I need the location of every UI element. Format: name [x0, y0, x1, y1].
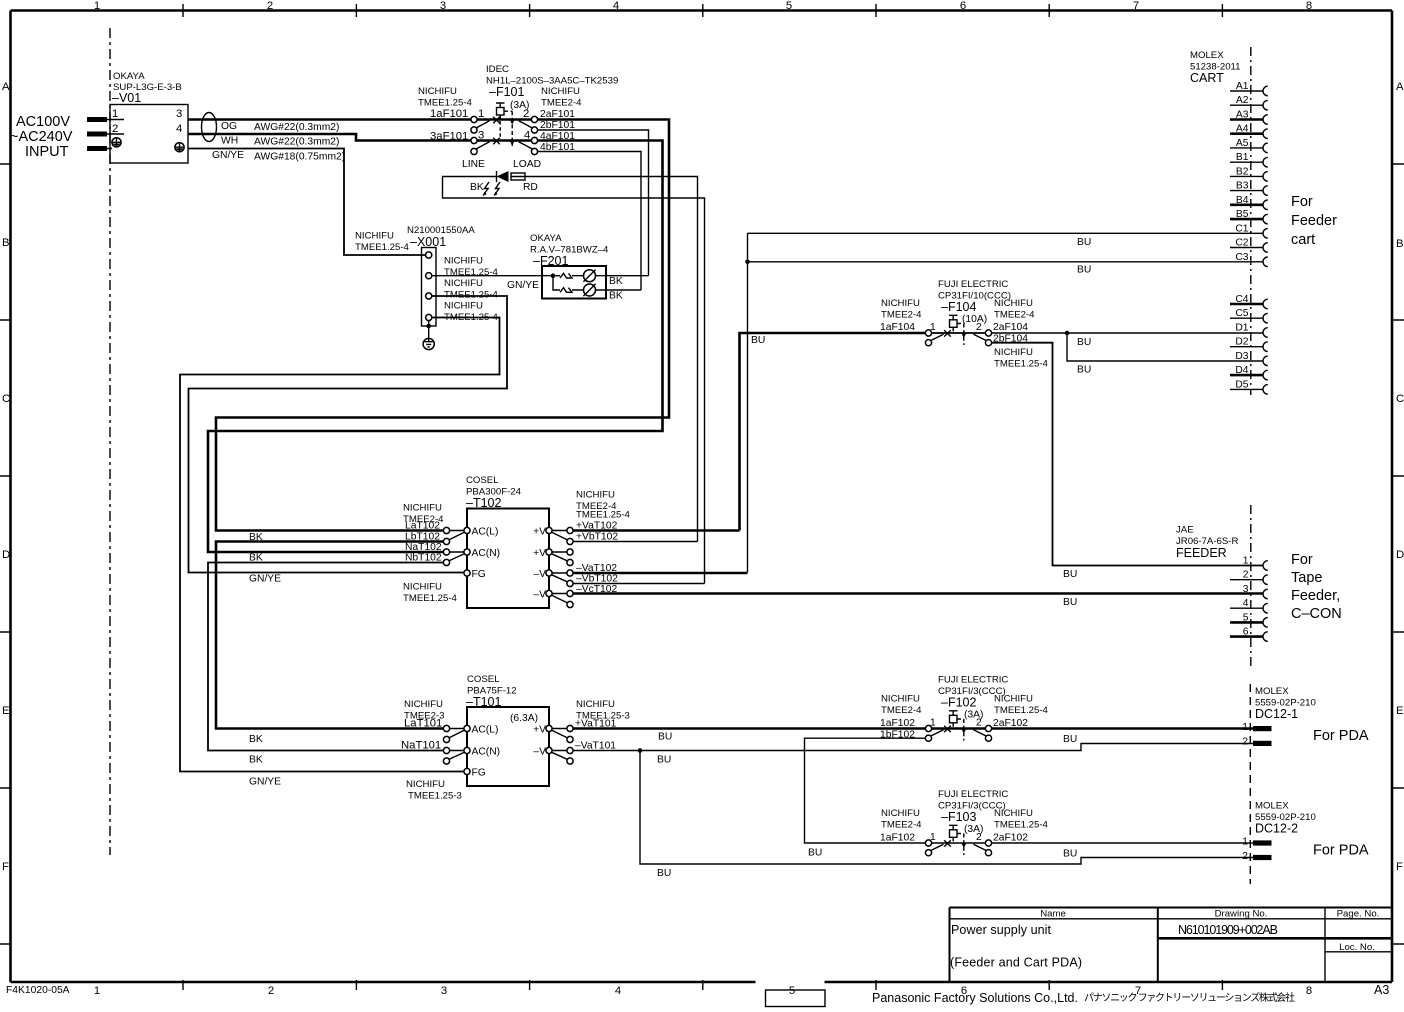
- svg-text:F4K1020-05A: F4K1020-05A: [6, 985, 70, 996]
- svg-text:GN/YE: GN/YE: [249, 574, 281, 585]
- svg-text:4: 4: [615, 985, 621, 997]
- svg-text:6: 6: [960, 0, 966, 12]
- AC input label: [10, 114, 73, 160]
- CART pin A3: [1230, 110, 1268, 125]
- svg-text:1: 1: [112, 108, 118, 120]
- DC12-2 pin 1: [1242, 837, 1271, 848]
- wire 24V: +VaT102 up to F104 line: [740, 333, 926, 531]
- svg-text:RD: RD: [523, 182, 538, 193]
- svg-text:C: C: [2, 393, 10, 405]
- svg-text:1: 1: [94, 985, 100, 997]
- svg-text:TMEE1.25-4: TMEE1.25-4: [403, 593, 458, 604]
- svg-text:Tape: Tape: [1291, 570, 1322, 586]
- CART pin B3: [1230, 181, 1268, 196]
- svg-text:MOLEX: MOLEX: [1190, 50, 1224, 61]
- F101 pole 2 contact: [476, 138, 532, 149]
- T102 pin +V1: [533, 527, 552, 538]
- CART pin D4: [1230, 365, 1268, 380]
- V01 ground terminal right: [175, 143, 184, 152]
- circuit breaker F104 FUJI ELECTRIC labels: [881, 279, 1049, 370]
- svg-text:BU: BU: [1063, 734, 1077, 745]
- svg-text:LaT102: LaT102: [405, 521, 440, 532]
- svg-text:TMEE1.25-4: TMEE1.25-4: [994, 359, 1049, 370]
- noise filter V01 OKAYA SUP-L3G-E-3-B: [110, 71, 188, 163]
- svg-text:8: 8: [1306, 0, 1312, 12]
- svg-text:5: 5: [786, 0, 792, 12]
- wire 2aF101: F101 to LaT102: [216, 120, 669, 531]
- svg-text:NaT101: NaT101: [401, 740, 441, 752]
- wire WH: V01 pin4 to F101 pin3: [188, 134, 471, 141]
- svg-text:7: 7: [1133, 0, 1139, 12]
- svg-text:BU: BU: [1063, 597, 1077, 608]
- svg-text:NICHIFU: NICHIFU: [403, 503, 442, 514]
- pilot LED: [497, 171, 509, 182]
- svg-text:NICHIFU: NICHIFU: [881, 298, 920, 309]
- T102 pin FG: [464, 569, 486, 580]
- circuit breaker F103 FUJI ELECTRIC labels: [881, 789, 1049, 835]
- CART pin D5: [1230, 379, 1268, 394]
- X001 crimp labels right: [444, 256, 499, 324]
- svg-text:F: F: [2, 861, 9, 873]
- svg-text:NICHIFU: NICHIFU: [418, 86, 457, 97]
- wire 0V: C1/C3 bus down to -VaT102: [748, 233, 1264, 572]
- FEEDER pin 2: [1230, 570, 1268, 585]
- T101 pin AC(L): [464, 725, 498, 736]
- svg-text:2aF104: 2aF104: [993, 322, 1028, 333]
- connector DC12-1 MOLEX 5559-02P-210: [1255, 686, 1316, 721]
- dash-dot boundary line left: [109, 28, 111, 855]
- X001 protective earth symbol: [423, 321, 434, 350]
- junction node C3 branch: [745, 260, 750, 265]
- CART pin C2: [1230, 238, 1268, 253]
- svg-text:2aF102: 2aF102: [993, 833, 1028, 844]
- column numbers bottom: [94, 985, 1312, 997]
- wire 1bF102 to F103: [805, 738, 926, 843]
- svg-text:(Feeder and Cart PDA): (Feeder and Cart PDA): [950, 956, 1082, 970]
- F102 contact: [931, 726, 987, 736]
- svg-text:NICHIFU: NICHIFU: [576, 490, 615, 501]
- wire X001-2 to F201 GN/YE: [432, 275, 542, 277]
- CART pin D1: [1235, 323, 1267, 338]
- svg-text:2: 2: [1242, 851, 1248, 862]
- svg-text:NICHIFU: NICHIFU: [403, 582, 442, 593]
- V01 ground terminal left: [112, 138, 121, 147]
- wire gauge labels: [254, 122, 345, 163]
- svg-text:FUJI ELECTRIC: FUJI ELECTRIC: [938, 789, 1008, 800]
- CART pin A2: [1230, 95, 1268, 110]
- svg-text:OKAYA: OKAYA: [113, 71, 145, 82]
- svg-text:A: A: [2, 81, 10, 93]
- svg-text:F: F: [1396, 861, 1403, 873]
- svg-text:DC12-1: DC12-1: [1255, 707, 1298, 721]
- svg-text:+V: +V: [533, 725, 546, 736]
- T102 input terminals: [443, 527, 464, 565]
- svg-text:Page. No.: Page. No.: [1337, 909, 1380, 920]
- svg-text:TMEE2-4: TMEE2-4: [994, 310, 1035, 321]
- wire GN/YE: V01 earth to X001: [188, 149, 426, 256]
- svg-text:(10A): (10A): [962, 314, 987, 325]
- svg-text:TMEE2-4: TMEE2-4: [541, 98, 582, 109]
- F101 LINE terminals: [471, 116, 477, 154]
- svg-text:BK: BK: [470, 182, 484, 193]
- svg-text:–V: –V: [533, 747, 546, 758]
- svg-text:AWG#22(0.3mm2): AWG#22(0.3mm2): [254, 122, 339, 133]
- T102 pin AC(N): [464, 548, 500, 559]
- svg-text:BU: BU: [657, 868, 671, 879]
- svg-text:BK: BK: [249, 755, 263, 766]
- svg-text:(6.3A): (6.3A): [510, 713, 538, 724]
- CART pin D3: [1235, 351, 1267, 366]
- svg-text:GN/YE: GN/YE: [212, 150, 244, 161]
- F201 junction node: [551, 273, 556, 278]
- DC12-1 pin 2: [1242, 737, 1271, 748]
- FEEDER pin 4: [1230, 598, 1268, 613]
- svg-text:1aF102: 1aF102: [880, 833, 915, 844]
- svg-text:BU: BU: [657, 755, 671, 766]
- F104 LINE terminals: [925, 330, 931, 346]
- svg-text:NICHIFU: NICHIFU: [355, 231, 394, 242]
- svg-text:1aF102: 1aF102: [880, 718, 915, 729]
- svg-text:B: B: [1396, 238, 1404, 250]
- svg-text:BU: BU: [1063, 569, 1077, 580]
- CART pin A5: [1230, 138, 1268, 153]
- svg-text:WH: WH: [221, 136, 238, 147]
- svg-text:CART: CART: [1190, 71, 1224, 85]
- CART pin A4: [1230, 124, 1268, 139]
- T102 pin -V2: [533, 590, 552, 601]
- svg-text:1aF104: 1aF104: [880, 322, 915, 333]
- svg-text:3: 3: [176, 108, 182, 120]
- svg-text:1: 1: [1243, 556, 1249, 567]
- svg-text:2: 2: [112, 123, 118, 135]
- svg-text:Name: Name: [1040, 909, 1066, 920]
- svg-text:GN/YE: GN/YE: [507, 280, 539, 291]
- svg-text:NICHIFU: NICHIFU: [881, 694, 920, 705]
- svg-text:TMEE1.25-4: TMEE1.25-4: [994, 705, 1049, 716]
- F201 lamp row 2: [583, 284, 595, 296]
- wire -VbT102 to pilot light: [573, 583, 704, 585]
- svg-text:C: C: [1396, 393, 1404, 405]
- DC12-2 pin 2: [1242, 851, 1271, 862]
- svg-text:1: 1: [1242, 837, 1248, 848]
- F103 trip linkage dashed: [957, 834, 966, 856]
- F104 trip linkage dashed: [957, 324, 966, 346]
- wire 2aF103 to DC12-2 pin1: [992, 842, 1253, 844]
- svg-text:BU: BU: [1077, 365, 1091, 376]
- svg-text:INPUT: INPUT: [25, 144, 69, 160]
- AC input terminal bars: [87, 117, 124, 151]
- F201 varistor row 1: [560, 273, 572, 278]
- FEEDER pin 6: [1230, 627, 1268, 642]
- note For Tape Feeder C-CON: [1291, 552, 1342, 622]
- svg-text:FG: FG: [472, 768, 486, 779]
- svg-text:AWG#22(0.3mm2): AWG#22(0.3mm2): [254, 137, 339, 148]
- svg-text:C–CON: C–CON: [1291, 606, 1342, 622]
- svg-text:NICHIFU: NICHIFU: [406, 779, 445, 790]
- svg-text:~AC240V: ~AC240V: [10, 129, 73, 145]
- cable grommet ellipse: [202, 113, 217, 142]
- F102 thermal element: [949, 711, 958, 727]
- svg-text:NICHIFU: NICHIFU: [404, 699, 443, 710]
- svg-text:–F201: –F201: [533, 254, 568, 268]
- svg-text:NICHIFU: NICHIFU: [541, 86, 580, 97]
- svg-text:NICHIFU: NICHIFU: [994, 298, 1033, 309]
- svg-text:NICHIFU: NICHIFU: [576, 699, 615, 710]
- svg-text:TMEE1.25-4: TMEE1.25-4: [355, 242, 410, 253]
- svg-text:NaT102: NaT102: [405, 542, 442, 553]
- F101 pole 1 contact: [476, 117, 532, 128]
- X001 crimp labels left: [355, 231, 410, 254]
- svg-text:–F101: –F101: [489, 85, 524, 99]
- DC12-1 pin 1: [1242, 722, 1271, 733]
- svg-text:FUJI ELECTRIC: FUJI ELECTRIC: [938, 675, 1008, 686]
- svg-text:GN/YE: GN/YE: [249, 777, 281, 788]
- svg-text:5: 5: [789, 985, 795, 997]
- svg-text:D3: D3: [1235, 351, 1248, 362]
- svg-text:–V01: –V01: [112, 91, 141, 105]
- connector FEEDER JAE JR06-7A-6S-R: [1176, 525, 1238, 561]
- svg-text:NICHIFU: NICHIFU: [444, 301, 483, 312]
- svg-text:NICHIFU: NICHIFU: [881, 808, 920, 819]
- svg-text:4: 4: [176, 123, 182, 135]
- wire X001-3 to T102 FG: [189, 296, 508, 573]
- T102 pin AC(L): [464, 527, 498, 538]
- terminal block X001 N210001550AA: [407, 225, 475, 326]
- series resistor: [511, 173, 525, 180]
- svg-text:N610101909+002AB: N610101909+002AB: [1178, 923, 1278, 937]
- svg-text:MOLEX: MOLEX: [1255, 686, 1289, 697]
- wire 2bF104 to FEEDER pin1: [992, 343, 1264, 566]
- svg-text:2: 2: [1242, 737, 1248, 748]
- T101 pin AC(N): [464, 747, 500, 758]
- CART pin C4: [1230, 294, 1268, 309]
- svg-text:TMEE2-4: TMEE2-4: [881, 705, 922, 716]
- T102 pin -V1: [533, 569, 552, 580]
- svg-text:NICHIFU: NICHIFU: [994, 694, 1033, 705]
- svg-text:D1: D1: [1235, 323, 1248, 334]
- svg-text:–T101: –T101: [466, 695, 501, 709]
- svg-text:DC12-2: DC12-2: [1255, 822, 1298, 836]
- F102 LOAD terminals: [985, 725, 991, 741]
- svg-text:AC(N): AC(N): [472, 548, 501, 559]
- svg-text:BU: BU: [1077, 337, 1091, 348]
- FEEDER boundary dash line: [1250, 505, 1252, 668]
- F103 LINE terminals: [925, 840, 931, 856]
- svg-text:–X001: –X001: [410, 235, 446, 249]
- svg-text:BU: BU: [1063, 849, 1077, 860]
- CART pin B1: [1230, 152, 1268, 167]
- X001 terminal 3: [426, 293, 432, 299]
- svg-text:4: 4: [613, 0, 619, 12]
- wire +VaT102: [573, 529, 739, 532]
- svg-text:LINE: LINE: [462, 159, 485, 170]
- CART pin C5: [1230, 308, 1268, 323]
- svg-text:FEEDER: FEEDER: [1176, 546, 1227, 560]
- F102 LINE terminals: [925, 725, 931, 741]
- svg-text:TMEE1.25-4: TMEE1.25-4: [576, 510, 631, 521]
- circuit breaker F101 IDEC labels: [418, 64, 618, 111]
- wire branch to CART D3: [1067, 333, 1263, 361]
- svg-text:E: E: [1396, 705, 1404, 717]
- svg-text:8: 8: [1306, 985, 1312, 997]
- CART pin B4: [1230, 195, 1268, 210]
- svg-text:TMEE2-4: TMEE2-4: [881, 310, 922, 321]
- svg-text:BK: BK: [609, 276, 623, 287]
- circuit breaker F102 FUJI ELECTRIC labels: [881, 675, 1049, 721]
- row letters right: [1396, 81, 1404, 873]
- F201 varistor row 2: [560, 288, 572, 293]
- T102 output crimp labels: [576, 490, 631, 521]
- wire 4bF101: F101 to F201: [538, 152, 641, 291]
- wire NbT102 down to NaT101: [208, 563, 443, 751]
- svg-text:–T102: –T102: [466, 496, 501, 510]
- svg-text:Feeder,: Feeder,: [1291, 588, 1340, 604]
- svg-text:NICHIFU: NICHIFU: [444, 256, 483, 267]
- T102 input crimp labels: [403, 503, 458, 605]
- connector CART MOLEX 51238-2011: [1190, 50, 1241, 85]
- svg-text:–V: –V: [533, 569, 546, 580]
- F103 LOAD terminals: [985, 840, 991, 856]
- svg-text:COSEL: COSEL: [466, 475, 499, 486]
- wire 0V to CART C3: [748, 261, 1264, 263]
- svg-text:Feeder: Feeder: [1291, 213, 1337, 229]
- svg-text:BK: BK: [249, 734, 263, 745]
- wire OG: V01 pin3 to F101 pin1: [188, 118, 471, 121]
- svg-text:AC(N): AC(N): [472, 747, 501, 758]
- F101 thermal element: [496, 103, 505, 140]
- svg-text:C3: C3: [1235, 252, 1248, 263]
- svg-text:3: 3: [1243, 584, 1249, 595]
- DC12 boundary dash line: [1249, 684, 1251, 884]
- FEEDER pin 1: [1243, 556, 1268, 571]
- svg-text:A3: A3: [1374, 983, 1389, 997]
- svg-text:AWG#18(0.75mm2): AWG#18(0.75mm2): [254, 152, 345, 163]
- svg-text:3aF101: 3aF101: [430, 131, 468, 143]
- F103 thermal element: [949, 825, 958, 841]
- CART pin D2: [1230, 337, 1268, 352]
- svg-text:FUJI ELECTRIC: FUJI ELECTRIC: [938, 279, 1008, 290]
- svg-text:LaT101: LaT101: [404, 718, 442, 730]
- svg-text:TMEE1.25-4: TMEE1.25-4: [444, 290, 499, 301]
- F102 trip linkage dashed: [957, 719, 966, 741]
- svg-text:2: 2: [976, 832, 982, 843]
- svg-text:–V: –V: [533, 590, 546, 601]
- svg-text:Loc. No.: Loc. No.: [1339, 942, 1375, 953]
- svg-text:BK: BK: [609, 291, 623, 302]
- svg-text:2: 2: [267, 0, 273, 12]
- svg-text:パナソニック ファクトリーソリューションズ株式会社: パナソニック ファクトリーソリューションズ株式会社: [1084, 991, 1295, 1004]
- F201 lamp row 1: [583, 270, 595, 282]
- svg-text:Power supply unit: Power supply unit: [951, 923, 1052, 937]
- wire 2aF104 to CART D1: [992, 332, 1264, 334]
- T101 output terminals: [552, 725, 573, 764]
- wire 2aF102 to DC12-1 pin1: [992, 727, 1253, 730]
- surge absorber F201 OKAYA R.A.V-781BWZ-4: [530, 233, 609, 299]
- row letters left: [2, 81, 10, 873]
- FEEDER pin 5: [1230, 612, 1268, 627]
- CART boundary dash line: [1250, 47, 1252, 395]
- svg-text:E: E: [2, 705, 10, 717]
- svg-text:2: 2: [976, 718, 982, 729]
- wire 4aF101: F101 to NaT102: [208, 141, 663, 553]
- wire +VaT101 to F102: [573, 727, 925, 730]
- svg-text:3: 3: [441, 985, 447, 997]
- svg-text:BU: BU: [751, 335, 765, 346]
- X001 terminal 4: [426, 314, 432, 320]
- junction node -Va branch: [638, 748, 643, 753]
- LED flash arrows: [483, 182, 500, 196]
- F104 contact: [931, 330, 987, 340]
- power supply T101 COSEL PBA75F-12: [466, 674, 549, 786]
- T101 input terminals: [443, 725, 464, 764]
- F101 LOAD terminals: [531, 116, 537, 154]
- svg-text:3: 3: [440, 0, 446, 12]
- wire -Va branch to DC12-2 pin2: [640, 751, 1253, 865]
- T101 pin +V: [533, 725, 552, 736]
- svg-text:JAE: JAE: [1176, 525, 1194, 536]
- svg-text:BU: BU: [1077, 265, 1091, 276]
- connector DC12-2 MOLEX 5559-02P-210: [1255, 801, 1316, 836]
- svg-text:IDEC: IDEC: [486, 64, 509, 75]
- svg-text:TMEE1.25-3: TMEE1.25-3: [408, 791, 462, 802]
- CART pin B5: [1230, 209, 1268, 224]
- svg-text:B: B: [2, 237, 10, 249]
- title block: [950, 908, 1393, 983]
- svg-text:D: D: [1396, 549, 1404, 561]
- svg-text:OKAYA: OKAYA: [530, 233, 562, 244]
- svg-text:–F104: –F104: [941, 300, 976, 314]
- svg-text:For PDA: For PDA: [1313, 728, 1369, 744]
- wire 2bF101: F101 to F201: [538, 130, 649, 276]
- F103 contact: [931, 840, 987, 850]
- svg-text:NICHIFU: NICHIFU: [994, 808, 1033, 819]
- T101 pin -V: [533, 747, 552, 758]
- svg-text:TMEE2-4: TMEE2-4: [881, 820, 922, 831]
- T101 pin FG: [464, 768, 486, 779]
- wire LbT102 down to LaT101: [216, 542, 443, 729]
- svg-text:NICHIFU: NICHIFU: [994, 347, 1033, 358]
- F104 thermal element: [949, 315, 958, 331]
- svg-text:COSEL: COSEL: [467, 674, 500, 685]
- CART pin C1: [1235, 223, 1267, 238]
- svg-text:NICHIFU: NICHIFU: [444, 278, 483, 289]
- svg-text:BU: BU: [1077, 237, 1091, 248]
- X001 ground junction node: [426, 324, 431, 329]
- column numbers top: [94, 0, 1312, 12]
- svg-text:AC100V: AC100V: [16, 114, 70, 130]
- wire -VaT101 to DC12-1 pin2: [573, 744, 1253, 751]
- X001 terminal 2: [426, 273, 432, 279]
- svg-text:LOAD: LOAD: [513, 159, 541, 170]
- CART pin A1: [1230, 81, 1268, 96]
- CART pin B2: [1230, 166, 1268, 181]
- svg-text:+V: +V: [533, 548, 546, 559]
- svg-text:cart: cart: [1291, 232, 1315, 248]
- svg-text:Panasonic Factory Solutions Co: Panasonic Factory Solutions Co.,Ltd.: [872, 991, 1078, 1005]
- svg-text:For: For: [1291, 194, 1313, 210]
- F104 LOAD terminals: [985, 330, 991, 346]
- svg-text:MOLEX: MOLEX: [1255, 801, 1289, 812]
- svg-text:FG: FG: [472, 569, 486, 580]
- svg-text:OG: OG: [221, 121, 237, 132]
- svg-text:+V: +V: [533, 527, 546, 538]
- CART pin C3: [1235, 252, 1267, 267]
- svg-text:BU: BU: [808, 848, 822, 859]
- svg-text:BU: BU: [658, 732, 672, 743]
- svg-text:For: For: [1291, 552, 1313, 568]
- svg-text:D: D: [2, 549, 10, 561]
- FEEDER pin 3: [1243, 584, 1268, 599]
